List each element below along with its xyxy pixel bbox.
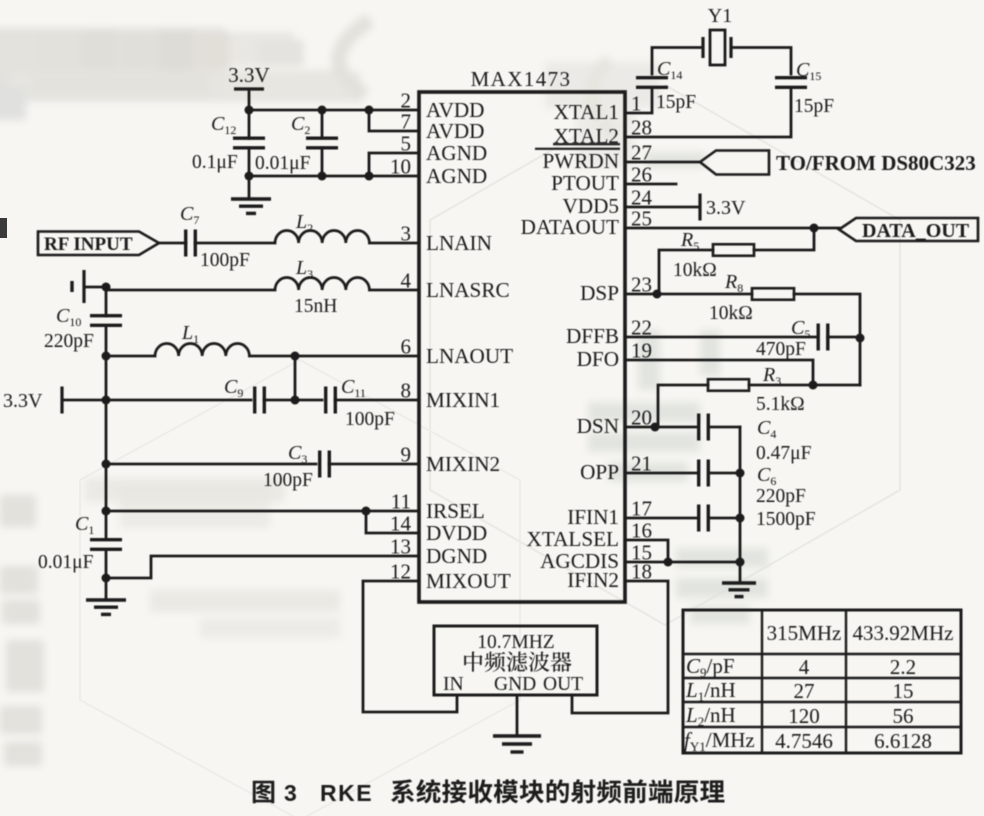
pin 17 number: [631, 497, 652, 521]
wire branch to pin 5 AGND: [369, 153, 419, 176]
pin 6 number: [401, 335, 412, 359]
svg-text:15: 15: [893, 679, 914, 703]
table row C9/pF label: [686, 654, 735, 680]
inductor L2: [275, 231, 369, 243]
svg-text:L1/nH: L1/nH: [685, 678, 736, 704]
node junction R3 right: [809, 381, 818, 390]
node junction top rail at C12: [245, 106, 254, 115]
node junction feedback rail C5: [856, 334, 865, 343]
svg-text:DFO: DFO: [577, 347, 619, 371]
wire tap to C11: [295, 399, 322, 402]
svg-text:DFFB: DFFB: [566, 324, 619, 348]
wire C8 to gnd rail: [711, 517, 740, 520]
table component values grid: [683, 610, 961, 753]
svg-text:GND: GND: [494, 674, 536, 695]
pin 21 label OPP: [580, 460, 619, 484]
wire R3 left down to DSN: [658, 385, 708, 427]
capacitor C4 value 0.47uF: [756, 443, 812, 464]
pin 14 label DVDD: [426, 521, 487, 545]
wire C12 lower lead: [248, 148, 251, 176]
svg-text:0.47μF: 0.47μF: [756, 443, 812, 464]
capacitor C3 label: [288, 442, 307, 466]
svg-text:433.92MHz: 433.92MHz: [853, 621, 954, 645]
capacitor C6 label: [757, 464, 776, 488]
svg-text:15pF: 15pF: [656, 92, 696, 113]
pin 23 label DSP: [580, 281, 619, 305]
pin 9 label MIXIN2: [426, 452, 500, 476]
wire crystal left to C14: [652, 48, 703, 75]
caption figure 3 label: [253, 780, 297, 806]
pin 24 label VDD5: [563, 194, 620, 218]
inductor L3 value 15nH: [294, 296, 337, 317]
wire L3 to pin 4 LNASRC: [369, 289, 419, 292]
svg-text:15nH: 15nH: [294, 296, 337, 317]
pin 6 label LNAOUT: [426, 344, 513, 368]
wire R3 right segment: [813, 384, 860, 387]
capacitor C8 value 1500pF: [756, 509, 816, 530]
node bus junction 3.3V row: [102, 396, 111, 405]
terminal antenna stub tall bar: [82, 270, 85, 303]
resistor R3 value 5.1k: [756, 394, 805, 415]
node junction DSP pin 23: [653, 290, 662, 299]
svg-text:RF INPUT: RF INPUT: [44, 234, 133, 255]
node bus junction LNASRC: [102, 283, 111, 292]
svg-text:L2/nH: L2/nH: [685, 703, 736, 729]
pin 27 label PWRDN: [535, 149, 620, 173]
pin 11 number: [391, 490, 411, 514]
wire branch to pin 7 AVDD: [369, 110, 419, 131]
svg-text:DSN: DSN: [577, 414, 619, 438]
pin 13 label DGND: [426, 544, 487, 568]
pin 25 label DATAOUT: [521, 215, 619, 239]
wire branch to pin 14 DVDD: [366, 511, 419, 533]
node 3.3V left label: [3, 390, 43, 412]
IF filter text zhongpin lvboqi: [464, 651, 571, 672]
capacitor C5: [818, 324, 828, 351]
wire filter GND to ground: [516, 695, 519, 734]
table header 433.92MHz: [853, 621, 954, 645]
pin 25 number: [631, 207, 652, 231]
capacitor C2 value 0.01uF: [255, 153, 311, 174]
pin 20 label DSN: [577, 414, 619, 438]
table header 315MHz: [767, 621, 842, 645]
svg-text:220pF: 220pF: [756, 486, 806, 507]
capacitor C15 value 15pF: [794, 96, 834, 117]
pin 18 number: [631, 560, 652, 584]
wire crystal right to C15: [731, 48, 791, 75]
svg-text:0.01μF: 0.01μF: [255, 153, 311, 174]
wire RF INPUT to C7: [159, 242, 186, 245]
svg-text:LNASRC: LNASRC: [426, 278, 510, 302]
wire pin 21 OPP to C6: [625, 472, 696, 475]
node junction MIXIN1 tap: [291, 396, 300, 405]
wire C11 to pin 8 MIXIN1: [335, 399, 419, 402]
svg-text:4: 4: [799, 655, 810, 679]
table row fY1 values: [775, 729, 932, 753]
svg-text:MAX1473: MAX1473: [471, 67, 572, 91]
node bus junction MIXIN2 row: [102, 460, 111, 469]
svg-text:Y1: Y1: [708, 5, 732, 27]
pin 23 number: [631, 273, 652, 297]
connector RF INPUT tag: [38, 232, 159, 256]
caption RKE: [320, 780, 373, 806]
pin 8 label MIXIN1: [426, 388, 500, 412]
svg-text:2.2: 2.2: [890, 655, 916, 679]
node 3.3V top label: [228, 63, 269, 87]
capacitor C12 label: [211, 113, 236, 137]
pin 26 number: [631, 163, 652, 187]
terminal 3.3V left bar: [60, 387, 63, 414]
node bus junction L1 row: [102, 352, 111, 361]
wire 3.3V down to AVDD rail: [248, 89, 251, 110]
wire bus segment to C1: [105, 511, 108, 539]
node junction bottom rail branch pin5: [365, 172, 374, 181]
pin 4 label LNASRC: [426, 278, 510, 302]
svg-text:470pF: 470pF: [756, 339, 806, 360]
svg-text:6.6128: 6.6128: [874, 729, 932, 753]
pin 24 number: [631, 186, 653, 210]
wire tap vertical: [294, 356, 297, 400]
capacitor C12: [233, 138, 265, 148]
capacitor C4: [699, 414, 709, 441]
capacitor C8 1500pF: [699, 505, 709, 532]
node junction LNAOUT tap: [291, 352, 300, 361]
svg-text:RKE: RKE: [320, 780, 373, 806]
capacitor C7 label: [180, 203, 199, 227]
svg-text:DGND: DGND: [426, 544, 487, 568]
wire pin 22 DFFB to C5: [625, 336, 818, 339]
ground right rail: [722, 583, 756, 597]
node junction DATAOUT-R5: [810, 224, 819, 233]
caption title CJK: [391, 779, 724, 803]
svg-text:TO/FROM DS80C323: TO/FROM DS80C323: [776, 151, 976, 175]
capacitor C9 label: [224, 376, 243, 400]
svg-text:3: 3: [284, 780, 297, 806]
pin 22 number: [631, 316, 652, 340]
wire pin 13 DGND return: [106, 556, 419, 578]
capacitor C11 label: [341, 376, 366, 400]
wire pin 12 MIXOUT to filter IN: [363, 581, 457, 712]
capacitor C10 label: [56, 305, 81, 329]
pin 1 number: [631, 92, 642, 116]
svg-text:LNAIN: LNAIN: [426, 231, 492, 255]
capacitor C9: [255, 387, 265, 414]
wire C9 to tap: [264, 399, 295, 402]
svg-text:IRSEL: IRSEL: [426, 499, 485, 523]
wire pin 23 DSP stub: [625, 293, 657, 296]
svg-text:IFIN2: IFIN2: [567, 568, 619, 592]
capacitor C4 label: [757, 417, 776, 441]
pin 12 label MIXOUT: [426, 569, 511, 593]
svg-text:PTOUT: PTOUT: [551, 171, 619, 195]
pin 2 label AVDD: [426, 98, 484, 122]
svg-text:100pF: 100pF: [345, 409, 395, 430]
resistor R5 label: [680, 229, 699, 253]
pin 14 number: [390, 512, 412, 536]
wire pin 25 DATAOUT to connector: [625, 227, 839, 230]
pin 15 label AGCDIS: [540, 549, 619, 573]
crystal Y1 body: [703, 30, 731, 65]
wire pin 24 VDD5 to 3.3V: [625, 206, 700, 209]
wire pin 19 DFO down to R3 rail: [625, 360, 813, 385]
node junction top rail branch pin7: [365, 106, 374, 115]
svg-text:AGND: AGND: [426, 141, 487, 165]
pin 7 number: [401, 110, 412, 134]
crystal Y1 label: [708, 5, 732, 27]
svg-text:27: 27: [794, 679, 815, 703]
table row L2 values: [788, 704, 913, 728]
pin 12 number: [390, 560, 411, 584]
svg-text:MIXIN1: MIXIN1: [426, 388, 500, 412]
svg-text:10kΩ: 10kΩ: [673, 260, 717, 281]
inductor L3 label: [295, 257, 313, 281]
svg-text:3.3V: 3.3V: [706, 197, 746, 219]
inductor L3: [275, 278, 369, 291]
pin 8 number: [401, 379, 412, 403]
wire AGND rail to ground: [248, 176, 251, 197]
wire pin 26 PTOUT stub: [625, 183, 676, 186]
pin 16 label XTALSEL: [527, 527, 619, 551]
capacitor C3 value 100pF: [263, 470, 313, 491]
wire 3.3V to bus: [62, 399, 106, 402]
wire L2 to pin 3 LNAIN: [369, 242, 419, 245]
ground below C12/C2: [231, 199, 271, 213]
svg-text:DSP: DSP: [580, 281, 619, 305]
inductor L1 label: [181, 322, 199, 346]
wire C4 to gnd rail: [711, 426, 740, 429]
pin 1 label XTAL1: [554, 100, 619, 124]
wire bus to C9: [106, 399, 251, 402]
pin 5 label AGND: [426, 141, 487, 165]
svg-text:MIXIN2: MIXIN2: [426, 452, 500, 476]
IF filter box: [434, 626, 597, 695]
svg-text:C9/pF: C9/pF: [686, 654, 735, 680]
node junction bottom rail at C12: [245, 172, 254, 181]
wire R5 to DSP: [659, 250, 713, 294]
wire pin 16 XTALSEL down: [625, 540, 668, 562]
wire pin 20 DSN to C4: [625, 426, 696, 429]
capacitor C2: [306, 138, 338, 148]
capacitor C10: [90, 316, 122, 326]
pin 2 number: [401, 89, 412, 113]
wire DATAOUT junction down to R5: [754, 228, 814, 250]
capacitor C12 value 0.1uF: [192, 152, 238, 173]
pin 7 label AVDD: [426, 119, 484, 143]
svg-text:0.01μF: 0.01μF: [38, 552, 94, 573]
pin 15 number: [631, 541, 652, 565]
svg-text:10.7MHZ: 10.7MHZ: [477, 632, 554, 653]
IF filter text IN GND OUT: [443, 674, 583, 695]
wire AGND bottom rail to pin 10: [249, 175, 419, 178]
svg-text:5.1kΩ: 5.1kΩ: [756, 394, 805, 415]
pin 17 label IFIN1: [567, 505, 619, 529]
wire C2 upper lead: [321, 110, 324, 138]
svg-text:4.7546: 4.7546: [775, 729, 833, 753]
pin 18 label IFIN2: [567, 568, 619, 592]
capacitor C5 value 470pF: [756, 339, 806, 360]
inductor L2 label: [295, 211, 313, 235]
pin 10 number: [390, 155, 411, 179]
svg-text:PWRDN: PWRDN: [542, 149, 619, 173]
IC U1 name MAX1473: [471, 67, 572, 91]
capacitor C14 value 15pF: [656, 92, 696, 113]
connector DATA_OUT shape: [839, 218, 978, 241]
table row L2/nH label: [685, 703, 736, 729]
capacitor C3: [320, 451, 330, 478]
wire C7 to L2: [195, 242, 275, 245]
node junction gnd rail OPP: [736, 469, 745, 478]
wire C5 to feedback rail: [828, 336, 861, 339]
svg-text:MIXOUT: MIXOUT: [426, 569, 511, 593]
node junction bottom rail at C2: [318, 172, 327, 181]
svg-text:100pF: 100pF: [200, 250, 250, 271]
svg-text:1500pF: 1500pF: [756, 509, 816, 530]
connector TO/FROM DS80C323 text: [776, 151, 976, 175]
terminal 3.3V top bar: [234, 87, 264, 90]
svg-text:DVDD: DVDD: [426, 521, 487, 545]
resistor R8 label: [724, 271, 743, 295]
pin 3 number: [401, 222, 412, 246]
pin 4 number: [401, 269, 412, 293]
pin 16 number: [631, 519, 652, 543]
svg-text:AGND: AGND: [426, 164, 487, 188]
IF filter text 10.7MHZ: [477, 632, 554, 653]
ground IF filter: [493, 736, 541, 752]
pin 10 label AGND: [426, 164, 487, 188]
svg-text:220pF: 220pF: [44, 331, 94, 352]
table row fY1/MHz label: [684, 728, 755, 754]
wire bus segment below C10: [105, 326, 108, 511]
wire bus to L3: [106, 289, 275, 292]
svg-text:315MHz: 315MHz: [767, 621, 842, 645]
capacitor C11: [326, 387, 336, 414]
resistor R3: [708, 379, 749, 391]
wire bus to C3: [106, 463, 316, 466]
capacitor C6: [699, 460, 709, 487]
pin 19 number: [631, 339, 652, 363]
terminal 3.3V right bar: [698, 194, 701, 221]
capacitor C15 label: [796, 59, 821, 83]
wire C1 to ground: [105, 550, 108, 598]
connector TO/FROM tag shape: [700, 151, 769, 175]
resistor R5: [713, 244, 754, 256]
wire C12 upper lead: [248, 110, 251, 139]
capacitor C1 value 0.01uF: [38, 552, 94, 573]
wire bus to pin 11 IRSEL: [106, 510, 419, 513]
pin 28 number: [631, 116, 652, 140]
node bus junction IRSEL row: [102, 507, 111, 516]
svg-text:15pF: 15pF: [794, 96, 834, 117]
node junction gnd rail AGCDIS: [736, 558, 745, 567]
table row L1 values: [794, 679, 914, 703]
wire C2 lower lead: [321, 148, 324, 176]
svg-text:3.3V: 3.3V: [3, 390, 43, 412]
svg-text:AVDD: AVDD: [426, 119, 484, 143]
capacitor C14 label: [657, 58, 682, 82]
wire pin 17 IFIN1 to C8: [625, 517, 696, 520]
table row L1/nH label: [685, 678, 736, 704]
wire C6 to gnd rail: [711, 472, 740, 475]
node bus junction DGND return: [102, 574, 111, 583]
capacitor C14: [636, 78, 668, 88]
svg-text:56: 56: [893, 704, 914, 728]
terminal antenna stub short bar: [70, 281, 73, 292]
wire R3 to R3 junction: [749, 384, 813, 387]
wire C14 to pin 1 XTAL1: [625, 88, 652, 113]
svg-text:OPP: OPP: [580, 460, 619, 484]
wire L1 to pin 6 LNAOUT: [249, 355, 419, 358]
svg-text:XTAL1: XTAL1: [554, 100, 619, 124]
wire pin 18 IFIN2 to filter OUT: [572, 581, 668, 713]
pin 20 number: [631, 406, 652, 430]
svg-text:IFIN1: IFIN1: [567, 505, 619, 529]
capacitor C7 value 100pF: [200, 250, 250, 271]
capacitor C2 label: [291, 113, 310, 137]
resistor R8: [752, 288, 794, 300]
pin 21 number: [631, 452, 652, 476]
wire AVDD top rail to pin 2: [249, 109, 419, 112]
pin 5 number: [401, 132, 412, 156]
connector RF INPUT text: [44, 234, 133, 255]
node junction AGCDIS: [664, 558, 673, 567]
capacitor C15: [775, 78, 807, 88]
svg-text:3.3V: 3.3V: [228, 63, 269, 87]
pin 11 label IRSEL: [426, 499, 485, 523]
svg-text:120: 120: [788, 704, 820, 728]
node junction DSN pin 20: [651, 423, 660, 432]
resistor R3 label: [762, 364, 781, 388]
pin 28 label XTAL2: [553, 124, 620, 148]
svg-text:DATAOUT: DATAOUT: [521, 215, 619, 239]
wire R8 right to feedback rail: [794, 294, 860, 338]
wire pin 27 PWRDN to tag: [625, 161, 700, 164]
IC U1 MAX1473 body: [419, 92, 625, 602]
pin 9 number: [401, 443, 412, 467]
wire pin 15 AGCDIS to gnd rail: [625, 561, 740, 564]
wire terminal to bus: [84, 286, 106, 289]
capacitor C6 value 220pF: [756, 486, 806, 507]
table row C9 values: [799, 655, 916, 679]
wire gnd rail vertical: [739, 427, 742, 581]
svg-text:OUT: OUT: [543, 674, 583, 695]
svg-text:LNAOUT: LNAOUT: [426, 344, 513, 368]
wire C15 to pin 28 XTAL2: [625, 88, 791, 137]
capacitor C1: [90, 540, 122, 550]
capacitor C10 value 220pF: [44, 331, 94, 352]
connector DATA_OUT text: [862, 220, 970, 242]
pin 27 number: [631, 141, 652, 165]
svg-text:XTALSEL: XTALSEL: [527, 527, 619, 551]
node junction gnd rail IFIN1: [736, 514, 745, 523]
pin 13 number: [390, 535, 411, 559]
wire bus to L1: [106, 355, 155, 358]
svg-text:IN: IN: [443, 674, 464, 695]
ground left bus: [86, 600, 126, 614]
node junction top rail at C2: [318, 106, 327, 115]
capacitor C11 value 100pF: [345, 409, 395, 430]
resistor R5 value 10k: [673, 260, 717, 281]
pin 26 label PTOUT: [551, 171, 619, 195]
node junction IRSEL-DVDD: [362, 507, 371, 516]
pin 3 label LNAIN: [426, 231, 492, 255]
wire feedback rail lower: [859, 338, 862, 385]
resistor R8 value 10k: [709, 303, 753, 324]
pin 19 label DFO: [577, 347, 619, 371]
svg-text:10kΩ: 10kΩ: [709, 303, 753, 324]
pin 22 label DFFB: [566, 324, 619, 348]
capacitor C5 label: [791, 317, 810, 341]
capacitor C1 label: [75, 513, 94, 537]
